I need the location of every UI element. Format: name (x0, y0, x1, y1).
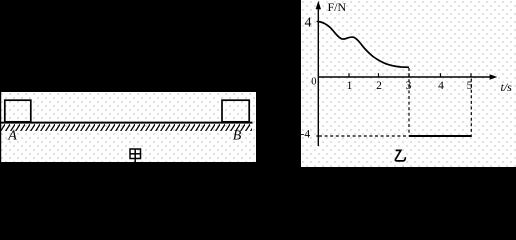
panel 乙 : F-t graph (301, 0, 516, 167)
tick t=3 (408, 73, 410, 77)
svg-text:t/s: t/s (501, 80, 513, 94)
svg-text:A: A (7, 129, 17, 144)
force curve F(t) (318, 22, 409, 68)
block B (222, 100, 249, 122)
ground line (0, 122, 253, 124)
label 乙 (drawn glyph) (395, 150, 405, 161)
tick F=4 (317, 21, 319, 23)
svg-text:4: 4 (438, 80, 444, 92)
tick F=-4 (316, 135, 318, 137)
x axis arrowhead (490, 74, 498, 79)
dashed rise at t=5 (470, 79, 472, 136)
svg-text:0: 0 (311, 77, 316, 88)
svg-text:1: 1 (347, 80, 353, 92)
panel 甲 : blocks A and B on ground (0, 92, 256, 162)
svg-text:2: 2 (376, 80, 382, 92)
y axis arrowhead (316, 1, 321, 9)
dashed drop at t=3 (408, 68, 410, 135)
dashed level F=-4 (319, 135, 409, 137)
label 甲 (drawn glyph) (130, 149, 141, 162)
tick t=2 (378, 73, 380, 77)
svg-text:B: B (233, 129, 242, 144)
tick t=4 (440, 73, 442, 77)
svg-text:F/N: F/N (328, 0, 347, 14)
solid segment F=-4 from t=3 to t=5 (409, 135, 472, 137)
ground hatching (1, 124, 252, 131)
svg-text:-4: -4 (301, 129, 310, 141)
left scan edge (0, 92, 2, 162)
tick t=5 (470, 73, 472, 77)
tick t=1 (348, 73, 350, 77)
x axis t (318, 76, 493, 78)
block A (5, 100, 31, 122)
y axis F (317, 4, 319, 146)
svg-text:4: 4 (305, 16, 312, 31)
